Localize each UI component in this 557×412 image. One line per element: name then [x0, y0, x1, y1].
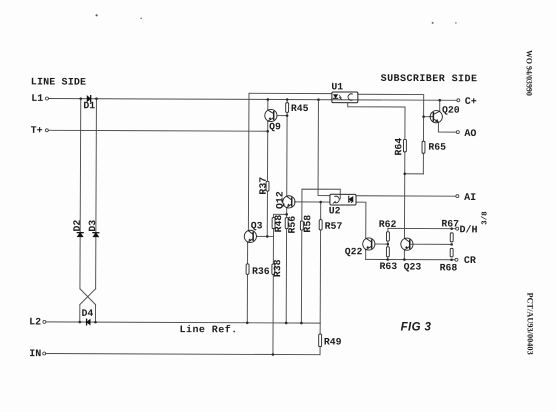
node T+ terminal [45, 129, 48, 132]
svg-text:D3: D3 [87, 220, 98, 232]
svg-text:D4: D4 [81, 308, 93, 319]
junction Q20 base R65 [422, 115, 425, 118]
transistor Q9 [265, 109, 277, 121]
transistor Q23 [401, 238, 413, 250]
wire R62 column [387, 228, 389, 259]
junction D1-right [95, 97, 98, 100]
wire U2 LED cathode to Q22 collector [356, 202, 366, 238]
svg-text:D1: D1 [83, 100, 95, 111]
svg-text:R58: R58 [302, 215, 313, 233]
wire U1 collector line to Q20 base [358, 94, 430, 116]
wire Q20 emitter to AO [438, 122, 456, 132]
resistor R68 [450, 248, 453, 257]
junction R67 R68 Q23 base [450, 243, 453, 246]
svg-text:R63: R63 [380, 261, 398, 272]
node AO terminal [456, 131, 459, 134]
svg-text:R48: R48 [273, 215, 284, 233]
wire Q3 emitter to R36 to Line Ref [246, 243, 248, 323]
svg-text:Q9: Q9 [269, 121, 281, 132]
junction L2-D4 left [78, 321, 81, 324]
svg-text:AI: AI [464, 193, 476, 204]
svg-text:U1: U1 [331, 81, 343, 92]
wire R58 column [301, 189, 340, 323]
wire Q3 base line [256, 235, 273, 237]
junction Q12 base R57 [319, 201, 322, 204]
wire R38 column [272, 236, 275, 354]
svg-text:Line Ref.: Line Ref. [180, 324, 238, 336]
junction D4 right [94, 321, 97, 324]
opto-coupler U2 [330, 194, 356, 205]
transistor Q12 [283, 196, 295, 208]
svg-text:L1: L1 [31, 94, 43, 105]
junction R64 bottom [403, 172, 406, 175]
node C+ terminal [457, 99, 460, 102]
wire rail to U2 collector [318, 100, 330, 196]
wire T+ rail [49, 129, 268, 132]
junction Q9 base R45 [286, 114, 289, 117]
svg-text:R45: R45 [291, 103, 309, 114]
junction T+ end [266, 130, 269, 133]
junction R67 top D/H [450, 227, 453, 230]
resistor R49 [319, 334, 322, 347]
wire Q12 base lead [294, 201, 329, 203]
transistor Q20 [429, 111, 442, 123]
wire Q23 emitter [403, 250, 405, 259]
wire R64 R65 bottom link [405, 173, 424, 175]
wire R49 column [319, 323, 321, 355]
junction R56 Line Ref [285, 322, 288, 325]
resistor R56 [285, 218, 288, 229]
wire crossover X [80, 289, 96, 305]
svg-text:C+: C+ [465, 97, 477, 108]
svg-text:R64: R64 [393, 138, 404, 156]
svg-text:IN: IN [29, 349, 41, 360]
svg-text:R56: R56 [287, 216, 298, 234]
svg-text:R62: R62 [379, 219, 397, 230]
wire R57 column [319, 202, 322, 323]
svg-text:R68: R68 [440, 262, 458, 273]
resistor R45 [286, 103, 289, 113]
wire D2 column bottom [79, 305, 81, 322]
wire Q22 base lead [375, 243, 388, 245]
transistor Q22 [363, 238, 375, 250]
junction rail-R45 [286, 98, 289, 101]
wire L2 / Line Ref rail [46, 322, 320, 323]
wire L1 rail [49, 99, 457, 101]
speck top left 2 [140, 18, 142, 20]
svg-text:Q3: Q3 [251, 220, 263, 231]
transistor Q3 [244, 230, 256, 242]
resistor R65 [422, 141, 425, 153]
wire R64 to Q23 collector column [403, 152, 405, 238]
junction Q3 base R37 [266, 235, 269, 238]
junction Q12 emitter R48 R56 [285, 213, 288, 216]
resistor R48 [272, 218, 275, 229]
wire Q20 collector [439, 100, 441, 111]
wire Q12 emitter to R48 link [274, 213, 287, 215]
resistor R58 [300, 221, 303, 230]
svg-text:PCT/AU93/00403: PCT/AU93/00403 [525, 293, 534, 355]
svg-text:R36: R36 [252, 266, 270, 277]
svg-text:D/H: D/H [459, 224, 477, 236]
svg-text:L2: L2 [29, 317, 41, 328]
node CR terminal [455, 258, 458, 261]
svg-text:WO 94/03990: WO 94/03990 [524, 50, 533, 96]
wire D2 column top [79, 99, 82, 289]
svg-text:Q23: Q23 [404, 261, 422, 272]
opto-coupler U1 [332, 92, 358, 103]
svg-text:R38: R38 [272, 259, 283, 277]
node IN terminal [43, 352, 46, 355]
wire Q9 base lead [277, 115, 287, 117]
svg-text:R37: R37 [258, 177, 269, 195]
speck top right 2 [455, 22, 457, 24]
resistor R67 [450, 233, 453, 242]
svg-text:LINE SIDE: LINE SIDE [31, 77, 86, 88]
resistor R64 [403, 139, 406, 151]
resistor R62 [386, 232, 389, 241]
wire U1 LED anode line [248, 93, 331, 231]
wire Q9 collector column [267, 99, 269, 110]
junction rail-Q9 [267, 98, 270, 101]
resistor R37 [266, 181, 269, 191]
wire D3 column bottom [94, 305, 96, 322]
node AI terminal [456, 195, 459, 198]
svg-text:Q12: Q12 [274, 191, 285, 209]
junction rail-U2 branch [317, 98, 320, 101]
svg-text:R49: R49 [324, 337, 342, 348]
wire Q9 emitter / R37 column [266, 121, 269, 236]
resistor R57 [319, 220, 322, 230]
diode D3 [93, 233, 99, 237]
svg-text:Q22: Q22 [345, 246, 363, 257]
svg-text:3/8: 3/8 [481, 211, 489, 225]
junction rail-Q20 [438, 99, 441, 102]
wire Q22 emitter to CR [365, 250, 367, 259]
svg-text:T+: T+ [31, 126, 43, 137]
junction R36 Line Ref [246, 321, 249, 324]
junction L1-D1 left [79, 97, 82, 100]
junction R58 Line Ref [300, 322, 303, 325]
wire Q12 emitter column / R56 [285, 207, 288, 322]
wire IN rail [46, 354, 320, 355]
svg-text:CR: CR [464, 256, 476, 267]
wire AI line [356, 195, 456, 197]
diode D2 [77, 233, 83, 237]
resistor R63 [386, 247, 389, 257]
svg-text:D2: D2 [72, 220, 83, 232]
junction R38 IN rail [272, 353, 275, 356]
node D/H terminal [456, 227, 459, 230]
wire R65 column [422, 117, 424, 174]
wire Q23 base line [410, 243, 451, 245]
svg-text:U2: U2 [329, 205, 341, 216]
svg-text:FIG 3: FIG 3 [401, 322, 432, 334]
junction Q23 emitter CR [403, 258, 406, 261]
resistor R36 [246, 264, 249, 274]
wire R48 column [272, 214, 274, 236]
junction R62 R63 Q22 base [387, 243, 390, 246]
junction R68 bottom CR [450, 258, 453, 261]
wire R45 / Q12 collector column [286, 100, 288, 197]
speck top right 1 [432, 22, 434, 24]
diode D1 [87, 96, 91, 102]
wire D/H line [388, 227, 456, 229]
svg-text:R57: R57 [325, 221, 343, 232]
wire U1 emitter to R64 [348, 103, 405, 140]
speck top left 1 [96, 14, 98, 16]
wire D3 column top [95, 99, 98, 289]
node L1 terminal [45, 97, 48, 100]
svg-text:Q20: Q20 [442, 105, 460, 116]
svg-text:R67: R67 [441, 218, 459, 229]
junction R63 bottom [386, 258, 389, 261]
resistor R38 [272, 264, 275, 274]
wire CR rail [366, 258, 455, 260]
svg-text:AO: AO [464, 129, 476, 140]
svg-text:SUBSCRIBER SIDE: SUBSCRIBER SIDE [381, 74, 478, 85]
svg-text:R65: R65 [428, 142, 446, 153]
node L2 terminal [43, 320, 46, 323]
diode D4 [87, 319, 91, 325]
